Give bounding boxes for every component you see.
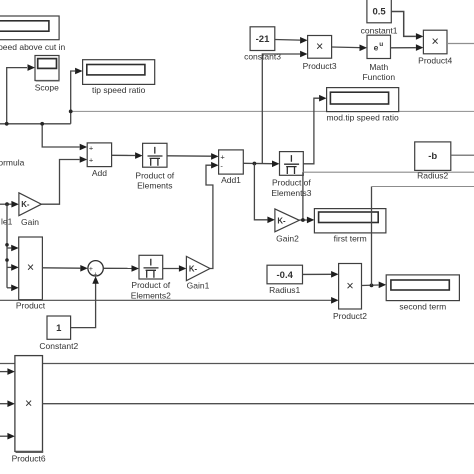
- constant Radius2: [415, 142, 451, 181]
- wire: long cropped net at y=363.5: [0, 363, 474, 365]
- wire: PoE3 output up to mod display: [303, 95, 326, 164]
- wire: long net into Product2 input2 from left edge: [0, 297, 339, 304]
- wire: Product2 output into second term display: [362, 282, 387, 289]
- svg-text:1: 1: [56, 323, 62, 334]
- svg-text:Product4: Product4: [418, 56, 452, 66]
- node: junction above Product input2: [5, 258, 9, 262]
- product Product3: [303, 36, 337, 72]
- wire: PoE2 output to Gain1: [163, 265, 187, 272]
- wire: Add output to Product of Elements: [112, 152, 143, 159]
- svg-text:×: ×: [25, 397, 32, 411]
- svg-text:Elements2: Elements2: [131, 290, 171, 300]
- wire: stub into Product6 input2: [0, 400, 15, 407]
- svg-text:Scope: Scope: [35, 82, 59, 92]
- svg-text:×: ×: [346, 279, 353, 293]
- svg-text:Product: Product: [16, 300, 46, 310]
- svg-text:+: +: [89, 266, 93, 273]
- wire: branch down to Gain2: [254, 164, 275, 224]
- svg-text:+: +: [220, 153, 225, 162]
- wire: Constant2 up into sum bottom: [71, 276, 99, 327]
- wire: branch up over first term display to gray net y=186.5: [372, 187, 474, 286]
- svg-text:speed above cut in: speed above cut in: [0, 42, 65, 52]
- wire: into Gain from left edge: [0, 201, 19, 208]
- constant Radius1: [267, 265, 303, 295]
- product Product: [16, 237, 46, 310]
- gain Gain: [19, 193, 42, 227]
- label: cropped formula text: [0, 158, 25, 168]
- wire: Gain1 output routed up to Add1 minus input: [206, 162, 219, 269]
- sum-circle Add2: [88, 261, 103, 279]
- svg-text:×: ×: [316, 40, 323, 54]
- node: junction feeding long net y=111: [69, 110, 73, 114]
- svg-text:Gain: Gain: [21, 217, 39, 227]
- svg-text:formula: formula: [0, 158, 25, 168]
- wire: constant3 to Product3: [275, 37, 308, 44]
- constant constant3: [244, 27, 281, 62]
- block: Product of Elements2: [131, 255, 171, 300]
- svg-text:Gain1: Gain1: [187, 281, 210, 291]
- wire: constant1 to Product4 input1: [391, 12, 423, 40]
- math-function U: e^u: [362, 35, 395, 82]
- wire: Product6 output to right edge: [43, 403, 474, 405]
- svg-text:u: u: [379, 41, 383, 48]
- svg-text:-0.4: -0.4: [277, 270, 294, 281]
- svg-text:+: +: [89, 143, 94, 152]
- svg-text:Add1: Add1: [221, 175, 241, 185]
- svg-text:e: e: [374, 43, 379, 53]
- svg-text:Radius1: Radius1: [269, 285, 300, 295]
- svg-text:Constant2: Constant2: [39, 341, 78, 351]
- svg-text:tip speed ratio: tip speed ratio: [92, 85, 146, 95]
- svg-text:×: ×: [27, 261, 34, 275]
- wire: branch up to Scope: [7, 64, 35, 124]
- svg-text:Math: Math: [369, 62, 388, 72]
- svg-text:Product of: Product of: [272, 177, 311, 187]
- svg-text:0.5: 0.5: [372, 7, 386, 18]
- svg-text:Add: Add: [92, 168, 107, 178]
- node: junction on Product2 output: [370, 284, 374, 288]
- svg-text:Function: Function: [362, 72, 395, 82]
- wire: sum output to Product of Elements2: [103, 265, 139, 272]
- wire: long cropped net at y=111: [71, 110, 474, 112]
- wire: gray net from Gain2 branch at y=172: [303, 172, 474, 220]
- svg-text:K-: K-: [277, 216, 286, 225]
- svg-text:Elements3: Elements3: [271, 188, 311, 198]
- svg-text:mod.tip speed ratio: mod.tip speed ratio: [326, 113, 399, 123]
- svg-text:Product of: Product of: [135, 170, 174, 180]
- wire: branch up to Product3 input 2: [262, 51, 307, 164]
- display: mod.tip speed ratio: [326, 88, 399, 123]
- wire: riser to tip speed ratio display: [71, 68, 83, 124]
- node: junction on Add1 output: [253, 162, 257, 166]
- node: junction at scope branch: [5, 122, 9, 126]
- wire: main bus at y=123.8 from left edge: [0, 123, 71, 125]
- wire: stub into Product6 input3: [0, 433, 15, 440]
- svg-text:+: +: [89, 156, 94, 165]
- product Product2: [333, 264, 367, 321]
- node: junction above Product input1: [5, 243, 9, 247]
- svg-text:K-: K-: [189, 265, 198, 274]
- sum-block Add1: [219, 150, 244, 185]
- svg-text:-b: -b: [428, 151, 437, 162]
- wire: Add1 output to Product of Elements3: [243, 161, 279, 168]
- wire: Radius1 to Product2 input1: [303, 271, 339, 278]
- sum-block Add: [87, 143, 111, 178]
- constant constant1: [361, 0, 398, 35]
- svg-text:Radius2: Radius2: [417, 171, 448, 181]
- constant Constant2: [39, 316, 78, 351]
- display: speed above cut in: [0, 16, 65, 52]
- block: Product of Elements: [135, 143, 174, 190]
- display: second term: [386, 275, 459, 311]
- product Product6: [12, 356, 46, 464]
- wire: Product4 output to right edge: [447, 43, 474, 45]
- wire: Product of Elements output to Add1: [167, 153, 219, 160]
- block: Product of Elements3: [271, 152, 311, 198]
- wire: Gain2 output into first term display: [299, 217, 314, 224]
- wire: Product3 to Math Function: [332, 45, 367, 52]
- wire: branch down to Add input 1: [42, 124, 87, 151]
- node: junction at Add branch: [40, 122, 44, 126]
- product Product4: [418, 30, 452, 65]
- svg-text:first term: first term: [334, 234, 367, 244]
- svg-text:Product of: Product of: [131, 280, 170, 290]
- svg-text:×: ×: [432, 35, 439, 49]
- label: cropped le1 text: [1, 217, 13, 227]
- gain Gain2: [275, 209, 299, 243]
- node: junction on gain feed: [5, 202, 9, 206]
- svg-text:constant3: constant3: [244, 52, 281, 62]
- gain Gain1: [186, 256, 210, 290]
- wire: Radius2 output to right edge: [451, 154, 474, 156]
- display: tip speed ratio: [83, 60, 155, 95]
- svg-text:Product6: Product6: [12, 454, 46, 464]
- svg-text:second term: second term: [399, 301, 446, 311]
- wire: stub into Product6 input1: [0, 368, 15, 375]
- svg-text:-21: -21: [256, 34, 270, 45]
- svg-text:Elements: Elements: [137, 181, 172, 191]
- wire: Product output to sum: [42, 265, 87, 272]
- display: first term: [314, 209, 386, 244]
- wire: Gain output up to Add input 2: [41, 156, 87, 204]
- scope Scope: [35, 56, 60, 93]
- wire: Math Function to Product4: [391, 44, 424, 51]
- svg-text:K-: K-: [21, 200, 30, 209]
- svg-text:constant1: constant1: [361, 25, 398, 35]
- svg-text:Product2: Product2: [333, 311, 367, 321]
- node: junction on Gain2 output: [301, 218, 305, 222]
- svg-text:Gain2: Gain2: [276, 233, 299, 243]
- svg-text:Product3: Product3: [303, 61, 337, 71]
- wire: vertical distribution to Product inputs: [7, 204, 19, 291]
